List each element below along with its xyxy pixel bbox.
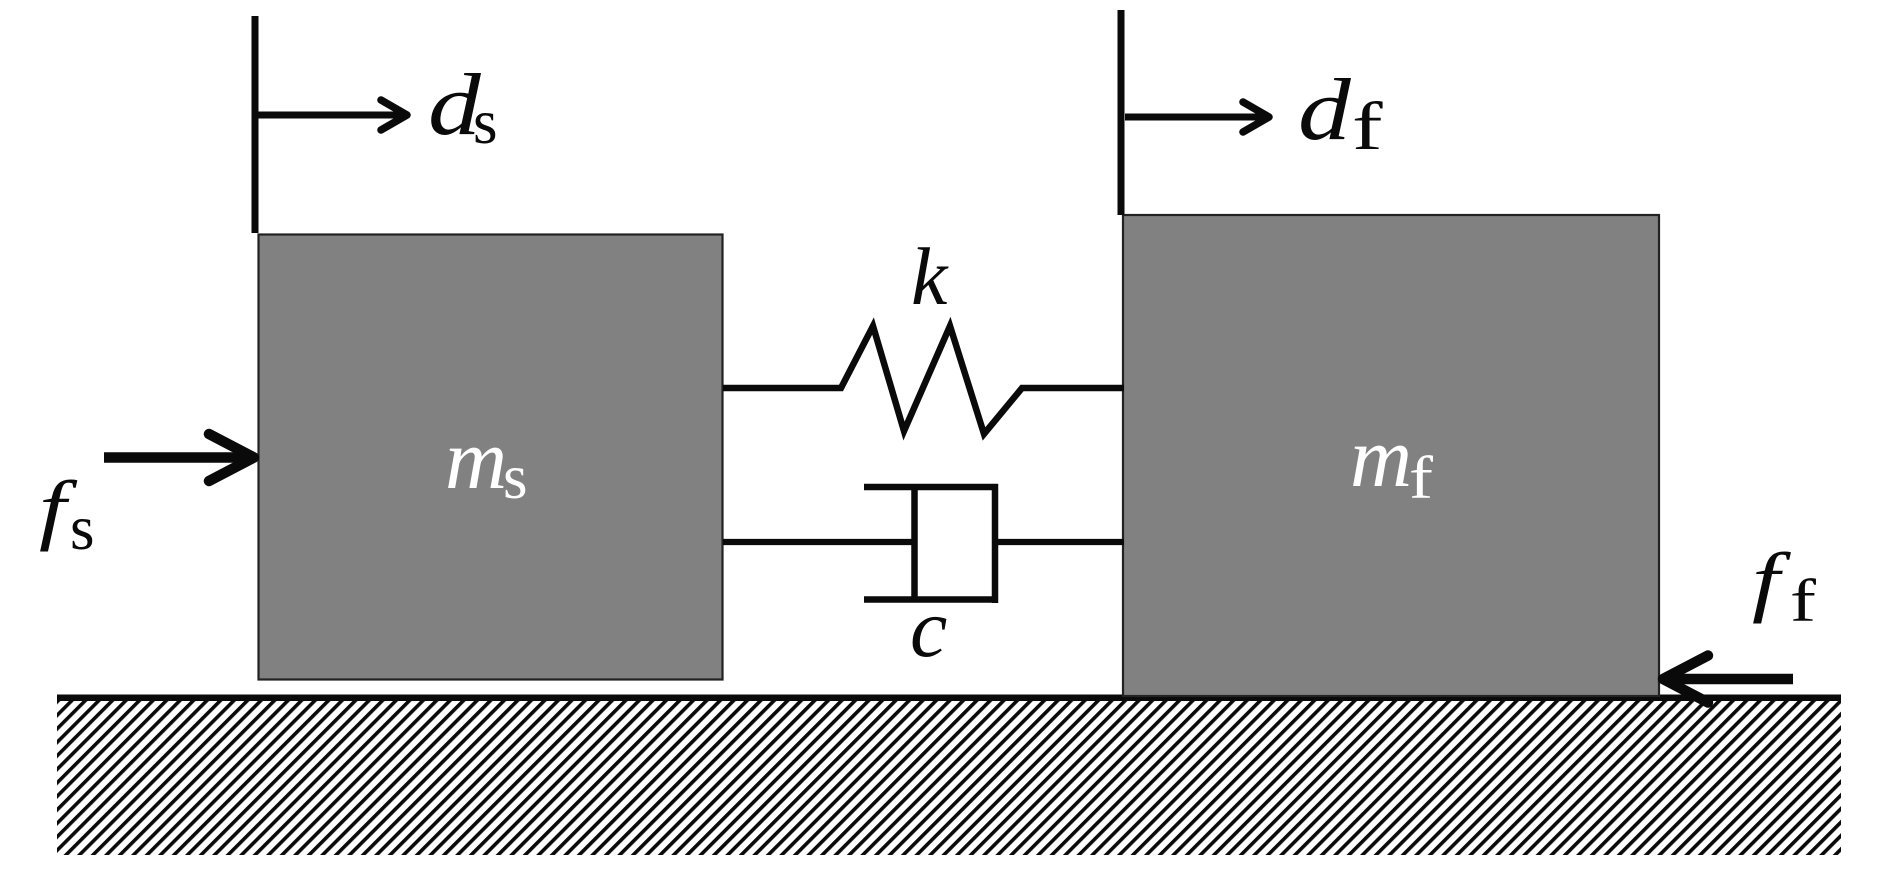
svg-text:d: d (1298, 61, 1351, 159)
svg-text:s: s (473, 87, 498, 157)
f_s label (39, 466, 95, 563)
mass m_f block (1123, 215, 1659, 696)
svg-text:s: s (70, 493, 95, 563)
svg-text:m: m (1350, 409, 1412, 505)
ground (hatched foundation) (57, 699, 1841, 855)
piston plate (911, 487, 918, 598)
label box behind m_s (448, 423, 530, 508)
svg-text:f: f (1790, 568, 1817, 634)
spring k between masses (723, 326, 1124, 434)
left rod (723, 539, 917, 545)
svg-text:s: s (503, 442, 528, 512)
cylinder right wall (992, 484, 999, 603)
f_f label (1752, 539, 1817, 635)
d_f label (1298, 61, 1383, 164)
svg-text:k: k (911, 231, 949, 322)
right rod (995, 539, 1124, 545)
reference line right (wall for d_f) (1118, 10, 1125, 215)
cylinder bottom wall (864, 596, 998, 603)
svg-text:f: f (1409, 445, 1434, 511)
svg-text:c: c (910, 582, 947, 675)
f_f force arrow (1663, 656, 1793, 703)
d_s label (428, 56, 498, 157)
ground surface line (57, 695, 1841, 702)
m_f label (1350, 409, 1434, 512)
label box behind m_f (1352, 424, 1434, 509)
svg-text:f: f (1352, 89, 1383, 164)
d_s arrow (258, 100, 407, 130)
svg-text:m: m (445, 411, 507, 507)
d_f arrow (1125, 102, 1269, 132)
damper c between masses (723, 484, 1124, 603)
f_s force arrow (104, 434, 254, 481)
reference line left (wall for d_s) (252, 16, 259, 233)
mass m_s block (259, 235, 723, 680)
cylinder top wall (864, 484, 998, 491)
m_s label (445, 411, 528, 512)
